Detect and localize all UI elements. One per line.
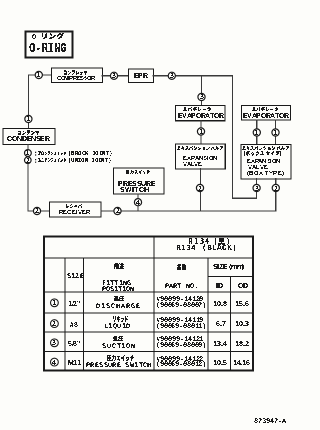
wire compressor to EPR [102,75,128,77]
joint node 2 receiver outlet [114,207,121,214]
pressure switch box [113,168,163,194]
wire rear suction out [256,179,258,199]
wire right evaporator right port [275,120,277,145]
joint node 4 pressure switch [134,199,141,206]
wire condenser to receiver [28,145,50,212]
wire pressure switch to liquid line [137,194,139,211]
joint node 1 condenser inlet [25,115,32,122]
joint node 1 rear valve left [253,129,260,136]
wire right evaporator left port [256,120,258,145]
joint node 3 left evaporator top [198,93,205,100]
legend node 2 union joint [25,157,112,164]
joint node 1 compressor outlet [35,71,42,78]
joint node 3 rear suction [253,184,260,191]
table header SIZE column [67,273,84,278]
right evaporator box [241,105,290,120]
table header fitting position [102,263,134,291]
parts table grid [44,237,253,371]
wire left expansion valve to liquid line [200,169,202,211]
joint node 3 EPR outlet [168,72,175,79]
table row 4 pressure switch [51,355,251,367]
joint node 1 rear valve right [272,129,279,136]
wire drop to left evaporator [201,76,203,106]
table header size mm [213,264,248,288]
wire left evaporator to expansion valve [200,121,202,144]
compressor box [52,68,103,83]
joint node 2 rear liquid [272,184,279,191]
table row 2 liquid [51,316,250,329]
joint node 1 left expansion valve inlet [197,128,204,135]
EPR box [129,69,154,83]
joint node 2 left expansion valve outlet [196,184,203,191]
joint node 2 receiver inlet [33,207,40,214]
receiver box [50,202,101,217]
box type expansion valve [241,145,291,179]
legend node 1 block joint [25,150,113,157]
condenser box [3,129,55,145]
table header refrigerant R134 [177,238,235,251]
left evaporator box [176,106,225,121]
wire suction return from rear [233,76,257,199]
wire rear liquid in [275,179,277,211]
table row 1 discharge [51,296,250,308]
table header part number [165,264,197,288]
wire compressor to condenser [28,75,51,129]
joint node 3 compressor suction [110,72,117,79]
table row 3 suction [51,336,250,348]
left expansion valve box [176,144,226,169]
wire EPR to suction main [153,75,232,77]
drawing number [254,418,286,423]
O-ring legend box [26,32,73,58]
main liquid line receiver to rear valve [101,210,276,212]
